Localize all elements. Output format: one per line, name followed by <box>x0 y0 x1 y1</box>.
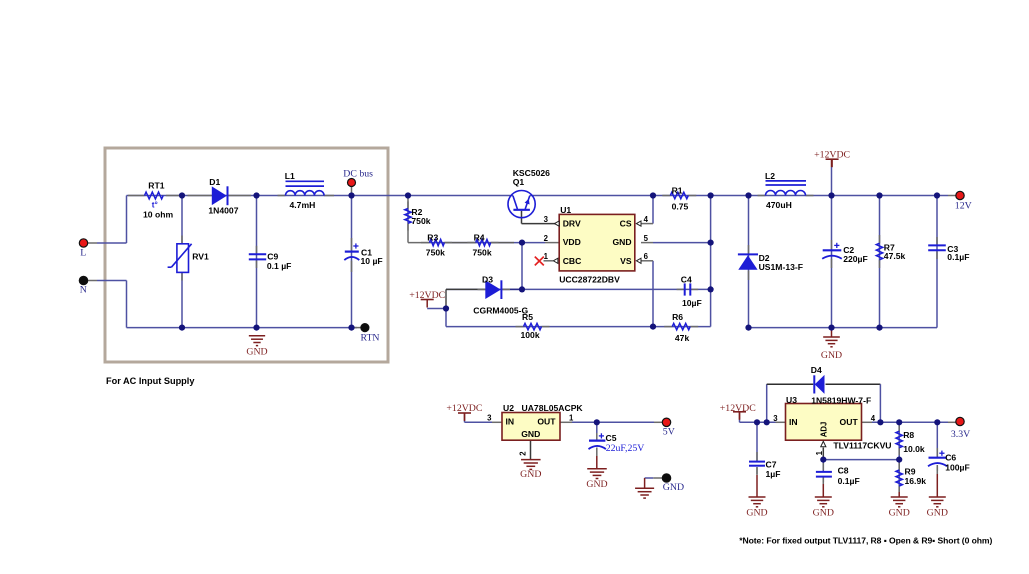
svg-text:L1: L1 <box>285 171 295 181</box>
svg-text:C8: C8 <box>838 466 849 476</box>
svg-text:OUT: OUT <box>537 417 556 427</box>
svg-text:D3: D3 <box>482 275 493 285</box>
svg-text:4.7mH: 4.7mH <box>290 200 316 210</box>
svg-text:3: 3 <box>487 414 492 423</box>
svg-text:CBC: CBC <box>563 256 582 266</box>
svg-text:RTN: RTN <box>361 332 380 343</box>
svg-text:UCC28722DBV: UCC28722DBV <box>559 274 620 284</box>
svg-text:12V: 12V <box>955 201 972 212</box>
svg-text:1: 1 <box>815 450 824 455</box>
svg-text:+12VDC: +12VDC <box>409 290 445 301</box>
svg-text:10.0k: 10.0k <box>903 444 925 454</box>
svg-text:C4: C4 <box>681 275 692 285</box>
svg-text:GND: GND <box>746 508 767 519</box>
svg-text:GND: GND <box>663 482 684 493</box>
svg-text:10 ohm: 10 ohm <box>143 210 173 220</box>
svg-text:GND: GND <box>813 508 834 519</box>
svg-text:CGRM4005-G: CGRM4005-G <box>473 305 528 315</box>
svg-text:CS: CS <box>620 219 632 229</box>
svg-text:C5: C5 <box>606 433 617 443</box>
svg-text:RV1: RV1 <box>192 251 209 261</box>
svg-text:3: 3 <box>544 215 549 224</box>
svg-text:GND: GND <box>927 508 948 519</box>
svg-text:D4: D4 <box>811 365 822 375</box>
svg-text:t°: t° <box>152 200 158 209</box>
svg-text:U3: U3 <box>786 395 797 405</box>
svg-text:GND: GND <box>612 237 631 247</box>
svg-text:750k: 750k <box>411 216 430 226</box>
svg-text:0.75: 0.75 <box>672 201 689 211</box>
svg-text:10µF: 10µF <box>682 298 702 308</box>
svg-text:1: 1 <box>569 414 574 423</box>
svg-text:+12VDC: +12VDC <box>720 403 756 414</box>
svg-text:100k: 100k <box>521 330 540 340</box>
svg-text:GND: GND <box>521 429 540 439</box>
svg-text:C7: C7 <box>766 460 777 470</box>
svg-text:TLV1117CKVU: TLV1117CKVU <box>833 440 891 450</box>
svg-text:3: 3 <box>773 414 778 423</box>
svg-text:R5: R5 <box>522 312 533 322</box>
svg-text:1N4007: 1N4007 <box>208 205 238 215</box>
svg-text:10 µF: 10 µF <box>361 256 383 266</box>
svg-text:GND: GND <box>246 347 267 358</box>
svg-text:2: 2 <box>518 451 527 456</box>
svg-text:U1: U1 <box>560 205 571 215</box>
svg-text:VDD: VDD <box>563 237 581 247</box>
svg-text:U2: U2 <box>503 403 514 413</box>
svg-text:1µF: 1µF <box>766 469 781 479</box>
svg-text:22uF,25V: 22uF,25V <box>606 443 645 454</box>
svg-text:750k: 750k <box>473 247 492 257</box>
svg-text:100µF: 100µF <box>945 462 970 472</box>
svg-text:ADJ: ADJ <box>819 422 828 438</box>
svg-text:DC bus: DC bus <box>343 168 373 179</box>
svg-text:RT1: RT1 <box>148 181 164 191</box>
svg-text:L2: L2 <box>765 171 775 181</box>
svg-text:N: N <box>80 284 87 295</box>
svg-text:4: 4 <box>644 215 649 224</box>
svg-text:47.5k: 47.5k <box>884 251 906 261</box>
svg-text:2: 2 <box>544 234 549 243</box>
svg-text:R1: R1 <box>672 185 683 195</box>
svg-text:+12VDC: +12VDC <box>814 149 850 160</box>
svg-text:UA78L05ACPK: UA78L05ACPK <box>522 403 584 413</box>
svg-text:OUT: OUT <box>840 417 859 427</box>
svg-text:5: 5 <box>644 234 649 243</box>
svg-text:0.1 µF: 0.1 µF <box>267 261 292 271</box>
svg-text:3.3V: 3.3V <box>951 429 970 440</box>
svg-text:0.1µF: 0.1µF <box>947 252 969 262</box>
svg-text:4: 4 <box>871 414 876 423</box>
svg-text:C9: C9 <box>267 252 278 262</box>
svg-text:5V: 5V <box>663 427 675 438</box>
svg-text:6: 6 <box>644 252 649 261</box>
svg-text:GND: GND <box>889 508 910 519</box>
svg-text:DRV: DRV <box>563 219 581 229</box>
svg-text:IN: IN <box>506 417 515 427</box>
svg-text:IN: IN <box>789 417 798 427</box>
svg-text:GND: GND <box>520 469 541 480</box>
svg-text:1N5819HW-7-F: 1N5819HW-7-F <box>811 396 871 406</box>
svg-text:470uH: 470uH <box>766 200 792 210</box>
svg-text:GND: GND <box>821 350 842 361</box>
svg-text:For AC Input Supply: For AC Input Supply <box>106 376 195 386</box>
svg-text:0.1µF: 0.1µF <box>838 476 860 486</box>
svg-text:*Note: For fixed output TLV11: *Note: For fixed output TLV1117, R8 ▪ Op… <box>739 536 992 546</box>
svg-text:GND: GND <box>586 479 607 490</box>
svg-text:R8: R8 <box>903 430 914 440</box>
svg-text:R3: R3 <box>427 233 438 243</box>
svg-text:Q1: Q1 <box>513 177 525 187</box>
svg-text:1: 1 <box>544 252 549 261</box>
svg-text:L: L <box>80 248 86 259</box>
svg-text:16.9k: 16.9k <box>905 476 927 486</box>
svg-text:750k: 750k <box>426 247 445 257</box>
svg-text:47k: 47k <box>675 333 690 343</box>
svg-text:C6: C6 <box>945 453 956 463</box>
svg-text:220µF: 220µF <box>843 254 868 264</box>
svg-text:R4: R4 <box>474 233 485 243</box>
svg-text:+12VDC: +12VDC <box>446 403 482 414</box>
svg-text:R6: R6 <box>672 312 683 322</box>
svg-text:US1M-13-F: US1M-13-F <box>759 262 803 272</box>
svg-text:D1: D1 <box>209 177 220 187</box>
svg-text:VS: VS <box>620 256 632 266</box>
